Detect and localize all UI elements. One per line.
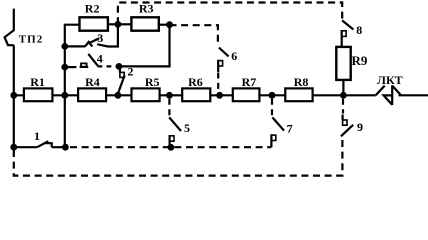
node bus x118 [115, 92, 122, 99]
node B (R2-R3) [115, 21, 122, 28]
node bus x169 [166, 92, 173, 99]
wire rail x=65 (switch3/4 column down to bus and switch1) [64, 46, 66, 147]
wire node C down and left to node D [119, 25, 170, 67]
switch 9 [342, 115, 344, 121]
wire node B to R3 [118, 23, 131, 25]
svg-text:R5: R5 [145, 75, 160, 89]
svg-text:6: 6 [231, 49, 237, 63]
svg-text:7: 7 [287, 121, 293, 135]
node C (R3 right) [166, 21, 173, 28]
node bus-left [10, 92, 17, 99]
node mid-dashed x171 [168, 144, 175, 151]
svg-text:R9: R9 [352, 53, 368, 68]
resistor R5 [132, 88, 160, 101]
svg-text:R1: R1 [30, 75, 45, 89]
resistor R2 [80, 17, 108, 30]
switch 2 [119, 66, 121, 72]
svg-text:3: 3 [97, 31, 103, 45]
switch 5 [169, 117, 181, 131]
svg-text:ЛКТ: ЛКТ [377, 73, 403, 87]
switch 8 [342, 20, 353, 29]
switch 1 [14, 146, 37, 148]
svg-text:5: 5 [184, 121, 190, 135]
resistor R7 [233, 88, 260, 101]
svg-text:R3: R3 [139, 2, 154, 16]
dashed mid line from switch1 to switch7 [70, 146, 271, 148]
node bus x272 [269, 92, 276, 99]
dashed branch node C to switch 6 [170, 25, 218, 46]
jack ЛКТ [376, 86, 385, 96]
svg-text:ТП2: ТП2 [19, 34, 43, 46]
switch 7 dashed stem from bus [271, 99, 273, 116]
dashed box: left drop, bottom border, right side [14, 137, 343, 175]
svg-text:R6: R6 [188, 75, 203, 89]
wire R3 to node C [159, 24, 170, 26]
svg-text:4: 4 [97, 51, 103, 65]
switch 9 dashed stem from bus [342, 99, 344, 114]
node switch1 right [62, 144, 69, 151]
switch 5 dashed stem from bus [168, 99, 170, 116]
svg-text:9: 9 [357, 120, 363, 134]
svg-text:R8: R8 [294, 75, 309, 89]
node switch3 tap [61, 43, 68, 50]
resistor R3 [131, 17, 158, 30]
switch 3 [65, 45, 85, 47]
svg-text:R7: R7 [242, 75, 257, 89]
switch 6 [219, 48, 229, 57]
wire (dashed) switch 6 to bus node [217, 73, 219, 94]
resistor R6 [182, 88, 210, 101]
svg-text:R2: R2 [85, 2, 100, 16]
resistor R8 [285, 88, 312, 101]
node switch4 tap [61, 64, 68, 71]
contact TP2 (ТП2) top-left breaker symbol [5, 9, 14, 46]
resistor R9 [336, 47, 350, 80]
node bus x65 [61, 92, 68, 99]
svg-text:8: 8 [356, 23, 362, 37]
svg-text:R4: R4 [85, 75, 100, 89]
resistor R1 [24, 88, 53, 101]
node bus x343 [340, 92, 347, 99]
resistor R4 [78, 88, 106, 101]
node switch1 left [10, 144, 17, 151]
wire left rail x=14 [13, 45, 15, 147]
wire R9 to bus [342, 80, 344, 94]
svg-text:2: 2 [128, 65, 134, 79]
wire (dashed) switch 4 to node D [98, 65, 117, 67]
dashed box top border [118, 3, 342, 25]
node D (switch2 top) [116, 63, 123, 70]
wire R2 to node B [107, 23, 118, 25]
switch 4 [65, 66, 77, 68]
node bus x220 [216, 92, 223, 99]
main bus wire [14, 94, 376, 96]
svg-text:1: 1 [34, 129, 40, 143]
switch 7 [272, 117, 284, 130]
wire R2 left lead L-corner [65, 25, 79, 47]
